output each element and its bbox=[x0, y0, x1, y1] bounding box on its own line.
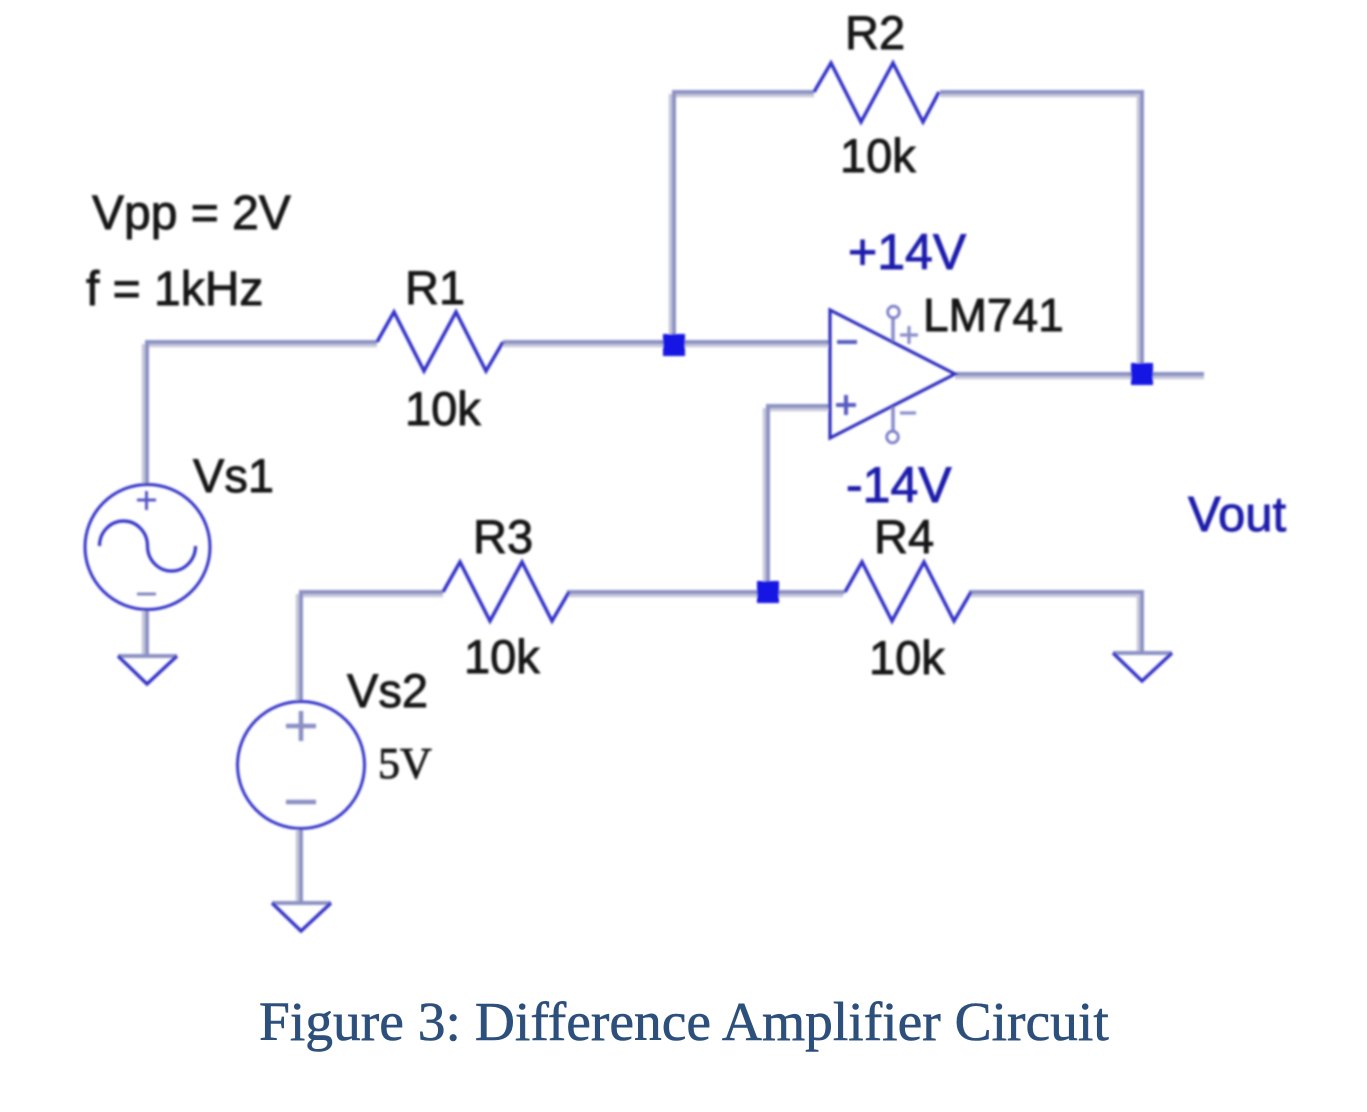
op-amp U1 triangle bbox=[830, 310, 955, 438]
op-amp inverting input minus sign bbox=[837, 340, 857, 344]
wire: Vs1 vertical from corner down to source top bbox=[145, 340, 149, 485]
svg-text:Vpp = 2V: Vpp = 2V bbox=[92, 187, 291, 240]
op-amp positive supply pin bbox=[891, 318, 895, 341]
node A junction square bbox=[663, 334, 685, 356]
source Vs1 plus bbox=[137, 491, 156, 510]
wire: Vs1 top corner to R1 left bbox=[145, 340, 377, 344]
resistor R2 bbox=[814, 63, 939, 122]
svg-text:R3: R3 bbox=[473, 510, 533, 563]
ground (R4) bbox=[1113, 651, 1172, 655]
wire: right vertical down to output node B bbox=[1140, 90, 1144, 374]
source Vs1 circle bbox=[85, 485, 210, 610]
wire: R4 right to corner and down to ground bbox=[969, 590, 1144, 654]
svg-text:5V: 5V bbox=[378, 739, 432, 788]
wire: op-amp output through node B to stub end bbox=[955, 372, 1204, 376]
svg-text:R2: R2 bbox=[845, 6, 905, 59]
resistor R4 bbox=[845, 562, 971, 621]
wire: R1 right to op-amp inverting input through node A bbox=[503, 340, 830, 344]
svg-text:10k: 10k bbox=[405, 382, 481, 435]
node C junction square bbox=[757, 581, 779, 603]
svg-text:LM741: LM741 bbox=[923, 289, 1064, 341]
svg-text:10k: 10k bbox=[869, 631, 945, 684]
ground (Vs2) bbox=[272, 901, 331, 905]
wire: op-amp non-inverting input left then down to node C bbox=[768, 404, 830, 594]
wire: Vs2 bottom to ground bbox=[299, 828, 303, 903]
svg-text:Vout: Vout bbox=[1188, 488, 1286, 542]
op-amp non-inverting input plus sign bbox=[836, 395, 856, 415]
wire light halo lines bbox=[143, 93, 1204, 903]
svg-text:Vs2: Vs2 bbox=[347, 664, 428, 717]
op-amp negative supply pin bbox=[891, 407, 895, 431]
source Vs1 sine bbox=[100, 521, 196, 571]
wire: top horizontal to R2 left bbox=[672, 90, 814, 94]
wire: Vs2 corner to R3 left bbox=[299, 590, 443, 702]
node B output junction square bbox=[1131, 363, 1153, 385]
svg-text:R1: R1 bbox=[405, 261, 465, 314]
ground (Vs1) bbox=[118, 654, 177, 658]
svg-text:+14V: +14V bbox=[848, 224, 967, 280]
source Vs1 minus bbox=[137, 593, 156, 596]
svg-text:Vs1: Vs1 bbox=[193, 449, 274, 502]
svg-text:10k: 10k bbox=[840, 129, 916, 182]
svg-text:R4: R4 bbox=[874, 510, 934, 563]
source Vs2 circle bbox=[238, 702, 365, 829]
wire: R2 right to top-right corner bbox=[940, 90, 1144, 94]
resistor R3 bbox=[443, 562, 569, 621]
wire: Vs1 bottom to ground bbox=[145, 610, 149, 656]
svg-text:-14V: -14V bbox=[846, 457, 952, 513]
svg-text:Figure 3: Difference Amplifier: Figure 3: Difference Amplifier Circuit bbox=[259, 992, 1109, 1053]
wire: node A up to R2 feedback loop left vertical bbox=[672, 92, 676, 346]
wire: R3 right through node C to R4 left bbox=[567, 590, 845, 594]
resistor R1 bbox=[377, 312, 503, 371]
svg-text:f = 1kHz: f = 1kHz bbox=[86, 263, 263, 316]
svg-text:10k: 10k bbox=[464, 630, 540, 683]
source Vs2 minus bbox=[286, 800, 316, 805]
source Vs2 plus bbox=[286, 711, 316, 741]
